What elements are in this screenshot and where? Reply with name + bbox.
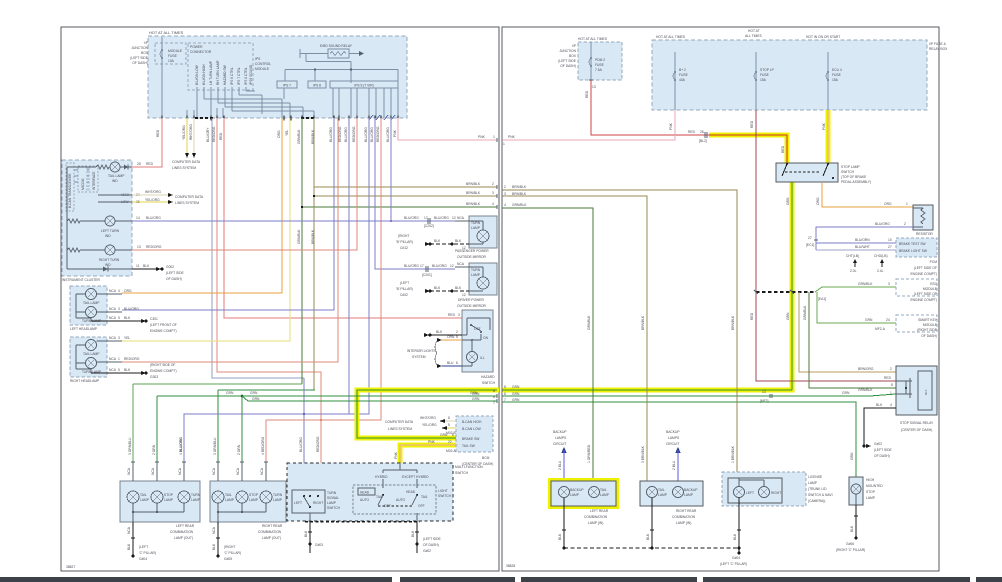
wire BLU/GRY [206, 118, 304, 378]
ground bus G#04 [562, 546, 747, 566]
svg-text:13: 13 [592, 85, 596, 89]
svg-text:FUSE: FUSE [595, 63, 605, 67]
svg-text:14: 14 [136, 216, 140, 220]
svg-text:B/U/GN LOW: B/U/GN LOW [195, 64, 199, 85]
svg-text:17: 17 [424, 216, 428, 220]
wire BLU/ORG driver mirror [370, 118, 455, 277]
left panel edge pins [496, 138, 498, 403]
svg-text:RED: RED [219, 132, 223, 140]
svg-text:BLU/ORG: BLU/ORG [299, 437, 303, 452]
svg-text:TURN: TURN [273, 493, 283, 497]
I/P junction box (right panel) [558, 37, 622, 80]
svg-text:GRN: GRN [252, 397, 260, 401]
left page border [61, 27, 499, 571]
right rear lamp ground G#05 [212, 522, 241, 561]
driver power outside mirror [455, 262, 497, 308]
right rear lamp wire labels [212, 436, 268, 481]
svg-text:BLU/ORG: BLU/ORG [146, 216, 161, 220]
wire GRN bus left segment [218, 390, 315, 462]
svg-text:[EC1]: [EC1] [806, 243, 814, 247]
svg-text:2 GRN: 2 GRN [237, 444, 241, 455]
svg-text:3: 3 [492, 191, 494, 195]
svg-text:G#02: G#02 [874, 442, 882, 446]
svg-text:GRN: GRN [786, 312, 790, 320]
wire GRN brake highlighted [357, 389, 497, 438]
svg-text:BACKUP: BACKUP [684, 488, 698, 492]
svg-text:LEFT HEADLAMP: LEFT HEADLAMP [70, 327, 98, 331]
wire BLU/ORG turn signal switch [299, 378, 304, 490]
svg-text:JUNCTION: JUNCTION [559, 49, 576, 53]
svg-text:SWITCH: SWITCH [841, 170, 855, 174]
wire BLU navy to MFS [184, 118, 369, 415]
svg-text:HIGH: HIGH [866, 478, 875, 482]
wire BRN/BLK right rear tail [502, 192, 647, 481]
svg-text:WHT/ORG: WHT/ORG [145, 190, 161, 194]
smart key module [896, 315, 938, 338]
svg-text:2 BLU: 2 BLU [672, 460, 676, 470]
svg-text:13: 13 [762, 390, 766, 394]
svg-text:MODULE: MODULE [923, 323, 938, 327]
svg-text:RIGHT REAR: RIGHT REAR [676, 509, 697, 513]
IPS 8 output [308, 81, 326, 88]
svg-text:NCA: NCA [109, 336, 117, 340]
PCM module [896, 238, 937, 276]
svg-text:GRN: GRN [786, 197, 790, 205]
svg-text:GRN: GRN [512, 398, 520, 402]
svg-text:MOUNTED: MOUNTED [866, 484, 883, 488]
svg-text:YEL/ORG: YEL/ORG [145, 198, 160, 202]
svg-text:BLK: BLK [455, 239, 462, 243]
svg-text:DRIVER POWER: DRIVER POWER [458, 298, 484, 302]
svg-text:7.5A: 7.5A [595, 68, 603, 72]
junction box connector edge [162, 115, 398, 121]
svg-text:(LEFT SIDE OF: (LEFT SIDE OF [914, 266, 937, 270]
wire BLU/ORG spare pins [386, 118, 392, 222]
left headlamp [70, 286, 139, 331]
relay ground BLK [862, 403, 896, 458]
IPS 7 output [277, 81, 297, 88]
svg-text:(RIGHT: (RIGHT [224, 545, 235, 549]
svg-text:'C' PILLAR): 'C' PILLAR) [224, 551, 241, 555]
svg-text:G303: G303 [150, 375, 158, 379]
svg-text:JUNCTION: JUNCTION [131, 46, 148, 50]
left rear lamp wire labels [127, 437, 186, 481]
svg-text:BLU: BLU [447, 361, 454, 365]
svg-text:IPS 7: IPS 7 [283, 84, 291, 88]
svg-text:BLU/GRY: BLU/GRY [206, 127, 210, 142]
svg-text:BLK: BLK [304, 530, 308, 537]
svg-text:STOP LP: STOP LP [760, 68, 775, 72]
wire RED/ORG right headlamp turn [122, 118, 342, 362]
svg-text:SWITCH: SWITCH [455, 471, 469, 475]
svg-text:BRAKE TEST SW: BRAKE TEST SW [899, 242, 927, 246]
svg-text:15A: 15A [760, 78, 767, 82]
svg-text:G#03: G#03 [315, 543, 323, 547]
wire ORG from stop switch [816, 182, 913, 207]
svg-text:PNK: PNK [478, 135, 486, 139]
highlight yellow stop path [502, 110, 828, 390]
svg-text:STOP: STOP [866, 490, 876, 494]
svg-text:B-CAN LOW: B-CAN LOW [462, 427, 482, 431]
wire BLU/ORG from resistor [806, 222, 913, 250]
left headlamp ground G301 [91, 316, 177, 333]
svg-text:HEAD: HEAD [406, 490, 416, 494]
svg-text:BACKUP: BACKUP [553, 430, 567, 434]
svg-text:NCA: NCA [212, 467, 216, 475]
svg-text:5: 5 [456, 335, 458, 339]
right page border [502, 27, 939, 571]
svg-text:IPS 8 CTRL: IPS 8 CTRL [244, 67, 248, 85]
svg-text:NCA: NCA [212, 526, 216, 534]
svg-text:(RIGHT: (RIGHT [398, 234, 409, 238]
svg-text:YEL/ORG: YEL/ORG [182, 125, 186, 140]
wire GRN to relay coil [502, 390, 896, 403]
svg-text:B/U/GN HIGH: B/U/GN HIGH [202, 64, 206, 85]
wire WHT/ORG data [172, 118, 201, 170]
wire BRN/BLK license lamp [502, 185, 737, 478]
wire GRN/BLK cross-panel [297, 118, 497, 384]
svg-text:40A: 40A [679, 78, 686, 82]
svg-text:1: 1 [906, 202, 908, 206]
svg-text:10: 10 [888, 238, 892, 242]
svg-text:HEAD: HEAD [360, 491, 370, 495]
svg-text:TAIL: TAIL [658, 488, 665, 492]
svg-text:ORG: ORG [277, 130, 281, 138]
svg-text:TAIL: TAIL [140, 493, 147, 497]
svg-text:LINES SYSTEM: LINES SYSTEM [172, 166, 196, 170]
svg-text:CHT(LB): CHT(LB) [846, 254, 859, 258]
svg-text:NCA: NCA [109, 316, 117, 320]
svg-text:8: 8 [504, 385, 506, 389]
svg-text:'B' PILLAR): 'B' PILLAR) [396, 287, 413, 291]
left rear (in) ground [558, 498, 566, 548]
backup lamps circuit left arrow [553, 430, 567, 481]
svg-text:4: 4 [492, 202, 494, 206]
svg-text:RED: RED [448, 313, 456, 317]
svg-text:COMPUTER DATA: COMPUTER DATA [385, 420, 414, 424]
svg-text:NCA: NCA [236, 467, 240, 475]
svg-text:(TOP OF BRAKE: (TOP OF BRAKE [841, 175, 867, 179]
svg-text:INTERIOR LIGHTS: INTERIOR LIGHTS [407, 349, 436, 353]
svg-text:(LEFT SIDE: (LEFT SIDE [874, 448, 893, 452]
svg-text:BLK: BLK [212, 543, 216, 550]
svg-text:(LEFT SIDE: (LEFT SIDE [130, 56, 149, 60]
svg-text:LAMP: LAMP [471, 226, 481, 230]
IPS control module label [255, 57, 271, 71]
svg-text:HOT AT ALL TIMES: HOT AT ALL TIMES [578, 37, 608, 41]
svg-text:COMBINATION: COMBINATION [584, 515, 608, 519]
instrument cluster [62, 160, 132, 282]
svg-text:PNK: PNK [393, 129, 397, 137]
wire PNK tail switch highlighted [394, 440, 458, 463]
svg-text:PDM 2: PDM 2 [595, 58, 605, 62]
wire GRN/BLK left rear tail [502, 203, 593, 481]
svg-text:OFF: OFF [474, 327, 481, 331]
svg-text:MODULE: MODULE [923, 287, 938, 291]
svg-text:LIGHT: LIGHT [438, 489, 448, 493]
svg-text:RED: RED [750, 120, 754, 128]
svg-text:ENGINE COMPT): ENGINE COMPT) [150, 329, 177, 333]
svg-text:C301: C301 [150, 317, 158, 321]
svg-text:6: 6 [456, 361, 458, 365]
svg-text:M02-B: M02-B [446, 431, 457, 435]
svg-text:3 BRN/BLK: 3 BRN/BLK [641, 445, 645, 463]
BCM data wires [385, 416, 457, 453]
svg-text:BLU/ORG: BLU/ORG [404, 216, 419, 220]
svg-text:(LEFT: (LEFT [139, 545, 148, 549]
svg-text:LAMP: LAMP [140, 498, 150, 502]
svg-text:TAIL SW: TAIL SW [462, 444, 476, 448]
svg-text:3: 3 [118, 307, 120, 311]
svg-text:COMBINATION: COMBINATION [258, 530, 282, 534]
svg-text:27: 27 [888, 245, 892, 249]
stop signal relay [896, 366, 937, 432]
svg-text:LAMP (OUT): LAMP (OUT) [174, 536, 193, 540]
svg-text:1: 1 [503, 142, 505, 146]
svg-text:RED/ORG: RED/ORG [212, 126, 216, 142]
svg-text:GRN: GRN [512, 385, 520, 389]
wire BRN/BLK cross-panel 3 [311, 118, 497, 390]
svg-text:LAMP: LAMP [658, 493, 668, 497]
svg-text:4 RED/ORG: 4 RED/ORG [261, 436, 265, 455]
svg-text:OUTSIDE MIRROR: OUTSIDE MIRROR [457, 255, 487, 259]
svg-text:FUSE: FUSE [832, 73, 842, 77]
svg-text:LAMPS: LAMPS [555, 436, 567, 440]
module fuse F10 [155, 37, 186, 118]
svg-text:ORG: ORG [124, 289, 132, 293]
svg-text:28: 28 [137, 162, 141, 166]
svg-text:(LEFT FRONT OF: (LEFT FRONT OF [150, 323, 177, 327]
svg-text:HOT AT ALL TIMES: HOT AT ALL TIMES [149, 30, 184, 35]
svg-text:PCM: PCM [930, 260, 938, 264]
svg-text:IND: IND [105, 234, 111, 238]
wire BLU/ORG left headlamp turn [122, 118, 334, 310]
svg-text:GRN: GRN [226, 391, 234, 395]
svg-text:COMBINATION: COMBINATION [170, 530, 194, 534]
svg-text:RIGHT: RIGHT [313, 501, 323, 505]
wire GRN to ESC module [815, 282, 896, 292]
license lamp [722, 472, 833, 506]
svg-text:BRN/BLK: BRN/BLK [466, 191, 481, 195]
svg-text:ON: ON [483, 336, 489, 340]
svg-text:2: 2 [504, 185, 506, 189]
svg-text:BLK: BLK [143, 264, 150, 268]
svg-text:SWITCH & NAVI: SWITCH & NAVI [808, 493, 833, 497]
wire BRN/ORG to relay [799, 292, 896, 372]
svg-text:2: 2 [456, 330, 458, 334]
svg-text:4: 4 [504, 203, 506, 207]
svg-text:E/BD SOUND RELAY: E/BD SOUND RELAY [320, 44, 353, 48]
svg-text:HOT AT: HOT AT [748, 29, 760, 33]
svg-text:C#12: C#12 [400, 246, 408, 250]
left turn indicator [67, 216, 140, 238]
svg-text:GRN/BLK: GRN/BLK [803, 305, 807, 320]
right headlamp [70, 336, 140, 383]
svg-text:FUSE: FUSE [168, 54, 178, 58]
driver mirror ground BLK [396, 281, 469, 297]
svg-text:LAMP: LAMP [191, 498, 201, 502]
svg-text:4 BLU/ORG: 4 BLU/ORG [179, 437, 183, 455]
svg-text:38828: 38828 [506, 564, 515, 568]
svg-text:7: 7 [493, 401, 495, 405]
wire BLU/ORG left rear turn [179, 118, 349, 462]
svg-text:TURN: TURN [191, 493, 201, 497]
svg-text:BLU/WHT: BLU/WHT [855, 245, 870, 249]
svg-text:PNK: PNK [394, 451, 398, 459]
wire PNK cross-panel [393, 118, 497, 140]
svg-text:ECU 4: ECU 4 [832, 68, 842, 72]
svg-text:TAIL LAMP: TAIL LAMP [108, 174, 125, 178]
svg-text:GRN: GRN [472, 392, 480, 396]
svg-text:LAMP: LAMP [249, 498, 259, 502]
passenger mirror ground BLK [396, 234, 469, 250]
svg-text:(LEFT: (LEFT [400, 281, 409, 285]
svg-text:LAMP: LAMP [570, 493, 580, 497]
svg-text:STOP LAMP: STOP LAMP [841, 165, 861, 169]
svg-text:STOP: STOP [249, 493, 259, 497]
stop lamp switch [776, 163, 871, 184]
svg-text:NCA: NCA [109, 307, 117, 311]
svg-text:3 GRN/BLU: 3 GRN/BLU [128, 437, 132, 455]
svg-text:BLU/ORG: BLU/ORG [404, 264, 419, 268]
svg-text:SWITCH: SWITCH [482, 381, 496, 385]
wire GRN brake cross-panel highlighted [502, 385, 792, 390]
svg-text:ORG: ORG [884, 202, 892, 206]
wire RED long stop lamp fuse [750, 110, 896, 387]
svg-text:BLK: BLK [124, 368, 131, 372]
svg-text:HAZARD: HAZARD [481, 375, 495, 379]
svg-text:RED/ORG: RED/ORG [146, 245, 162, 249]
backup lamps circuit right arrow [666, 430, 681, 481]
svg-text:27: 27 [808, 236, 812, 240]
svg-text:BLK: BLK [124, 316, 131, 320]
MFS ground right [411, 521, 442, 553]
wire BLU/ORG cluster to passenger mirror [132, 216, 456, 228]
svg-text:26: 26 [700, 130, 704, 134]
svg-text:BACKUP: BACKUP [666, 430, 680, 434]
svg-text:RED: RED [585, 90, 589, 98]
fuse ECU 4 [826, 52, 842, 110]
left edge pins right panel [501, 188, 503, 404]
wire GRN to high mounted stop lamp [502, 398, 856, 477]
svg-text:IND: IND [112, 179, 118, 183]
svg-text:3: 3 [504, 192, 506, 196]
svg-text:I/P FUSE &: I/P FUSE & [929, 42, 947, 46]
svg-text:LAMP: LAMP [164, 498, 174, 502]
right rear (in) ground [646, 498, 654, 548]
wire BLU/WHT brake light sw [816, 245, 896, 250]
svg-text:NCA: NCA [127, 467, 131, 475]
junction box internal wiring [187, 87, 391, 118]
svg-text:LAMP (OUT): LAMP (OUT) [262, 536, 281, 540]
svg-text:RIGHT: RIGHT [771, 491, 781, 495]
wire RED/ORG right rear turn [266, 118, 381, 462]
BCM module [456, 416, 493, 466]
svg-text:LEFT TURN: LEFT TURN [101, 229, 120, 233]
svg-text:LAMP: LAMP [684, 493, 694, 497]
svg-text:BCM: BCM [482, 456, 490, 460]
svg-text:4: 4 [890, 403, 892, 407]
wire RED/ORG hazard feed [212, 118, 462, 318]
MFS ground left [304, 521, 323, 553]
svg-text:BLK: BLK [733, 533, 737, 540]
svg-text:RED: RED [688, 130, 696, 134]
svg-text:RED: RED [884, 376, 892, 380]
right turn indicator [67, 167, 132, 269]
svg-text:TAIL LAMP: TAIL LAMP [83, 352, 100, 356]
hazard switch [462, 310, 496, 385]
svg-text:OF DASH): OF DASH) [921, 334, 937, 338]
svg-text:NCA: NCA [178, 467, 182, 475]
highlight yellow brake path [357, 390, 499, 463]
svg-text:BLK: BLK [876, 403, 883, 407]
svg-text:(RIGHT SIDE: (RIGHT SIDE [917, 328, 938, 332]
svg-text:BRN/BLK: BRN/BLK [731, 315, 735, 330]
high mounted stop lamp ground [836, 505, 865, 552]
svg-text:G#02: G#02 [423, 549, 431, 553]
svg-text:2.0L: 2.0L [850, 269, 857, 273]
svg-text:GRN: GRN [512, 392, 520, 396]
svg-text:B+ 2: B+ 2 [679, 68, 686, 72]
svg-text:LAMPS: LAMPS [668, 436, 680, 440]
svg-text:BRN/BLK: BRN/BLK [512, 192, 527, 196]
svg-text:LAMP: LAMP [471, 273, 481, 277]
svg-text:BLK: BLK [411, 530, 415, 537]
svg-text:OF DASH): OF DASH) [560, 64, 576, 68]
svg-text:CIRCUIT: CIRCUIT [666, 442, 679, 446]
tail lamp indicator [67, 162, 132, 183]
svg-text:1: 1 [493, 135, 495, 139]
svg-text:(LEFT SIDE: (LEFT SIDE [558, 59, 577, 63]
svg-text:LAMP: LAMP [866, 496, 876, 500]
svg-text:G#06: G#06 [846, 542, 854, 546]
svg-text:7: 7 [504, 398, 506, 402]
svg-text:LINES SYSTEM: LINES SYSTEM [175, 201, 199, 205]
svg-text:(RIGHT 'C' PILLAR): (RIGHT 'C' PILLAR) [836, 548, 865, 552]
svg-text:COMBINATION: COMBINATION [672, 515, 696, 519]
svg-text:PEDAL ASSEMBLY): PEDAL ASSEMBLY) [841, 180, 871, 184]
svg-text:RLY: RLY [924, 389, 928, 395]
svg-text:RED: RED [750, 312, 754, 320]
svg-text:RIGHT HEADLAMP: RIGHT HEADLAMP [70, 379, 100, 383]
svg-text:SIGNAL: SIGNAL [327, 496, 339, 500]
svg-text:IND: IND [105, 263, 111, 267]
svg-text:YEL: YEL [124, 336, 130, 340]
svg-text:RED/ORG: RED/ORG [316, 436, 320, 452]
svg-text:PNK: PNK [669, 122, 673, 130]
svg-text:RED: RED [146, 162, 154, 166]
svg-text:MULTI-FUNCTION: MULTI-FUNCTION [455, 465, 483, 469]
MFS bottom connector [305, 521, 420, 523]
svg-text:NCA: NCA [109, 289, 117, 293]
svg-text:NCA: NCA [127, 526, 131, 534]
svg-text:LICENSE: LICENSE [808, 475, 823, 479]
svg-text:12: 12 [452, 216, 456, 220]
svg-text:LAMP: LAMP [327, 501, 337, 505]
svg-text:BLU/ORG: BLU/ORG [329, 127, 333, 142]
fuse STOP LP [754, 52, 775, 110]
svg-text:8: 8 [448, 416, 450, 420]
svg-text:BLK: BLK [850, 525, 854, 532]
license lamp ground [733, 498, 741, 549]
svg-text:POWER: POWER [190, 45, 203, 49]
svg-text:NCA: NCA [260, 467, 264, 475]
wire PNK ign feed highlighted [822, 110, 828, 163]
svg-text:BOX: BOX [569, 54, 577, 58]
svg-text:STOP SIGNAL RELAY: STOP SIGNAL RELAY [900, 421, 934, 425]
svg-text:[C202]: [C202] [424, 224, 434, 228]
cluster data pins [98, 190, 204, 205]
